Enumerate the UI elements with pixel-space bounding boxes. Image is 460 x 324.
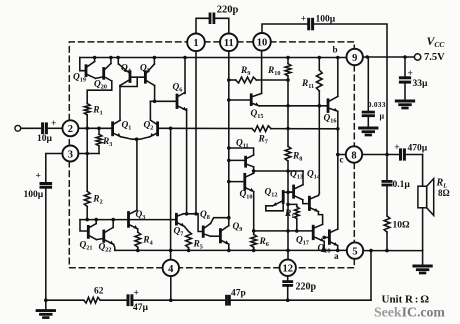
junction dots (misc nets) (44, 55, 407, 302)
pin 4 (163, 260, 179, 276)
transistor Q17 (313, 224, 324, 250)
svg-text:+: + (394, 143, 399, 153)
resistor R9 (236, 77, 257, 83)
wire: pin4 external stub (170, 276, 172, 300)
wire: R9 link y=80 (229, 79, 236, 81)
svg-text:47µ: 47µ (133, 303, 149, 313)
svg-text:5: 5 (352, 247, 357, 258)
speaker RL (418, 155, 434, 251)
resistor R4 (135, 232, 141, 247)
wire: Q15 emitter to Q16 base y=105.8 (259, 105, 328, 107)
wire: 100u bootstrap from pin10 to output node (262, 24, 387, 155)
wire: Q13/Q12 base tap, R12 taps on x=288 (288, 191, 291, 193)
ground (main output) (414, 266, 431, 273)
svg-text:8: 8 (351, 150, 356, 161)
svg-text:9: 9 (352, 53, 357, 64)
svg-text:R11: R11 (301, 79, 314, 90)
svg-text:Q18: Q18 (318, 244, 331, 255)
transistor Q6 (177, 92, 187, 110)
svg-text:+: + (301, 14, 306, 24)
transistor Q8 (203, 223, 220, 236)
wire: pin2 input wire (21, 127, 113, 129)
wire: R11 / Q14 collector vertical x=319.3 (317, 58, 320, 196)
wire + capacitor 0.1u Zobel (386, 155, 388, 251)
wire: pin4 feedback vertical (170, 128, 172, 259)
svg-text:7.5V: 7.5V (424, 52, 445, 63)
svg-text:Q19: Q19 (73, 73, 86, 84)
capacitor 100u (input decoupling) (41, 184, 51, 188)
svg-text:R4: R4 (142, 236, 152, 247)
wire: Q11 base link y=160.4 (229, 159, 245, 161)
wire: Q2 base / R7 feedback line y=128.3 (158, 127, 253, 129)
svg-text:1: 1 (193, 38, 198, 49)
svg-text:R5: R5 (193, 240, 203, 251)
svg-text:2: 2 (68, 124, 73, 135)
pin 8 (346, 146, 362, 162)
wire: b node vertical x=337.8 (337, 58, 339, 230)
transistor Q15 (251, 93, 261, 105)
svg-text:Q7: Q7 (174, 227, 184, 238)
pin 3 (62, 146, 78, 162)
wire: Q8 collector link y=217.7 (211, 218, 229, 224)
svg-text:b: b (333, 45, 338, 55)
transistor Q12 (266, 192, 294, 211)
IC boundary dashed box (69, 42, 354, 268)
wire: external bottom feedback rail y=300.2 (46, 251, 371, 301)
svg-text:62: 62 (94, 287, 104, 297)
wire: main middle vertical x=288 (R10/R8 chain to pin12) (287, 58, 289, 260)
wire: internal top supply rail y=57.5 (80, 58, 347, 71)
wire: Q6 base wire y=101.3 (150, 100, 177, 102)
capacitor 220p (top) (210, 14, 214, 23)
transistor Q19 (86, 58, 104, 79)
resistor R3 (96, 134, 102, 146)
transistor Q20 (87, 58, 112, 104)
junction dots on supply rail (93, 56, 340, 60)
svg-text:470µ: 470µ (408, 144, 428, 154)
svg-text:µ: µ (380, 112, 385, 121)
svg-text:Q3: Q3 (136, 210, 146, 221)
svg-text:4: 4 (168, 264, 174, 275)
wire: R12 leads (288, 204, 297, 231)
resistor R11 (316, 70, 322, 91)
resistor R6 (251, 234, 257, 247)
svg-text:VCC: VCC (427, 34, 446, 49)
wire: R6 leads (253, 231, 255, 251)
wire: pin8 output node (338, 154, 423, 156)
svg-text:Q2: Q2 (144, 121, 154, 132)
wire: internal bottom rail y=250.4 (115, 249, 347, 251)
svg-text:+: + (134, 288, 139, 298)
svg-text:0.033: 0.033 (368, 100, 386, 109)
svg-text:+: + (408, 69, 413, 79)
svg-text:0.1µ: 0.1µ (393, 180, 411, 190)
transistor Q16 (328, 96, 338, 111)
wire: R3 leads (98, 128, 100, 153)
wire: Q15 base link y=100 (229, 99, 251, 101)
wire: Q10/Q11 node to x=288 line y=171 (254, 167, 303, 185)
svg-text:3: 3 (68, 149, 73, 160)
svg-text:SeekIC.com: SeekIC.com (374, 305, 445, 320)
transistor Q11 (246, 155, 254, 167)
resistor R5 (186, 232, 192, 248)
svg-text:+: + (36, 172, 41, 182)
svg-text:R3: R3 (102, 137, 112, 148)
pin 10 (253, 33, 271, 51)
wire: pin1 internal vertical (195, 51, 197, 214)
capacitor 470u output (401, 150, 405, 159)
svg-text:Q4: Q4 (121, 64, 131, 75)
svg-text:Q8: Q8 (200, 210, 210, 221)
svg-text:Q14: Q14 (307, 170, 320, 181)
wire: pin10 internal vertical (261, 50, 263, 93)
capacitor 10u input (43, 124, 47, 133)
svg-text:Q5: Q5 (140, 64, 150, 75)
wire: 220p bridge pins 1-11 (196, 18, 229, 34)
svg-text:RL: RL (436, 178, 448, 190)
transistor Q2 (137, 101, 158, 139)
wire: pin11 internal vertical (228, 51, 230, 226)
resistor R2 (84, 191, 90, 206)
wire: R4 bottom lead (137, 247, 139, 250)
wire: Q11 collector link y=148 (229, 148, 254, 155)
ground (0.033u) (360, 128, 377, 135)
svg-text:R7: R7 (258, 135, 268, 146)
resistor R10 (285, 64, 291, 76)
transistor Q5 (145, 58, 154, 102)
svg-text:c: c (340, 155, 344, 165)
pin 11 (220, 34, 238, 52)
svg-text:R9: R9 (240, 66, 250, 77)
wire: R5 bottom lead (188, 248, 190, 251)
resistor 62 ohm (84, 297, 100, 303)
wire: Q3/Q7/Q21/Q22 base rail y=219.6 (80, 219, 176, 221)
svg-text:10µ: 10µ (37, 134, 53, 144)
ground (input 100u) (45, 300, 47, 310)
svg-text:220p: 220p (296, 282, 317, 293)
svg-text:+: + (51, 119, 56, 129)
pin 5 (347, 242, 363, 258)
svg-text:Q6: Q6 (173, 83, 183, 94)
transistor Q18 (324, 229, 338, 250)
svg-text:100µ: 100µ (316, 15, 336, 25)
transistor Q1 (113, 120, 137, 139)
svg-text:11: 11 (224, 38, 234, 49)
svg-text:10: 10 (257, 38, 268, 49)
ground (33u) (396, 101, 413, 108)
svg-text:Q16: Q16 (324, 114, 337, 125)
svg-text:Q17: Q17 (296, 236, 309, 247)
svg-text:8Ω: 8Ω (438, 188, 450, 198)
svg-text:Q15: Q15 (251, 109, 264, 120)
resistor R12 (294, 207, 299, 219)
pin 1 (187, 34, 205, 52)
capacitor 47u (feedback) (128, 296, 132, 305)
svg-text:R2: R2 (92, 195, 102, 206)
capacitor 220p (pin12) (284, 282, 292, 286)
svg-text:33µ: 33µ (413, 79, 429, 89)
svg-text:Q1: Q1 (122, 121, 132, 132)
transistor Q21 (80, 220, 104, 240)
transistor Q7 (176, 214, 188, 232)
wire: pin3 wire and 100u branch (46, 154, 99, 301)
svg-text:R6: R6 (259, 237, 269, 248)
Vcc terminal (414, 54, 420, 60)
wire: resistor lead chain on x=87.2 (R1/R2 column) (86, 115, 88, 220)
input terminal (15, 125, 21, 131)
wire: Vcc rail right of pin 9 (363, 56, 414, 58)
transistor Q4 (118, 58, 145, 121)
svg-text:12: 12 (282, 264, 293, 275)
pin 2 (62, 120, 78, 136)
resistor R7 (252, 126, 271, 132)
wire: Vbe multiplier bias rail y=230.9 (254, 230, 314, 232)
resistor R8 (285, 146, 291, 161)
svg-text:100µ: 100µ (24, 190, 44, 200)
wire: Q1/Q2 tail to Q3 collector (136, 139, 138, 210)
transistor Q22 (104, 220, 115, 251)
transistor Q13 (294, 185, 310, 204)
resistor R1 (84, 104, 90, 115)
transistor Q10 (245, 173, 254, 231)
wire: node under Q6 to Q8 base (184, 214, 204, 232)
svg-text:R1: R1 (92, 106, 102, 117)
svg-text:R8: R8 (292, 152, 302, 163)
wire + capacitor 33u to ground (404, 57, 406, 101)
wire: pin5 ground rail (363, 251, 422, 266)
svg-text:Q9: Q9 (233, 222, 243, 233)
capacitor 100u (bootstrap) (309, 19, 313, 29)
wire + capacitor 0.033u to ground (367, 57, 369, 128)
pin 12 (280, 260, 296, 276)
transistor Q3 (129, 210, 138, 232)
svg-text:Q20: Q20 (94, 80, 107, 91)
svg-text:47p: 47p (231, 289, 246, 299)
wire: Q10 base link y=181.6 (229, 181, 245, 183)
svg-text:10Ω: 10Ω (393, 221, 411, 231)
svg-text:Q12: Q12 (265, 188, 278, 199)
resistor 10 ohm (384, 216, 390, 232)
svg-text:220p: 220p (217, 5, 239, 16)
svg-text:Q11: Q11 (236, 139, 249, 150)
wire: Q6 collector vertical (184, 58, 186, 94)
svg-text:R10: R10 (267, 66, 280, 77)
transistor Q14 (309, 195, 322, 224)
wire: pin12 external stub + 220p (287, 276, 289, 300)
svg-text:Q22: Q22 (99, 243, 112, 254)
wire: Q6 emitter vertical (186, 109, 188, 214)
pin 9 (347, 49, 363, 65)
transistor Q9 (220, 226, 228, 251)
capacitor 47p (227, 296, 230, 304)
svg-text:a: a (334, 251, 339, 261)
svg-text:Q21: Q21 (80, 241, 93, 252)
